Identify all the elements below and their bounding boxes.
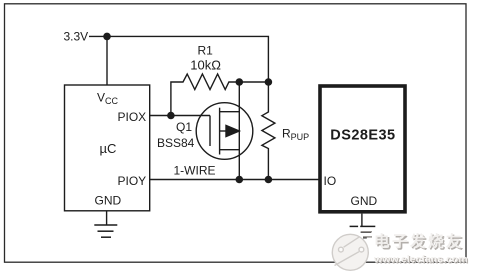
ground (uC) [94, 225, 117, 237]
wire: VCC drop to uC [106, 36, 108, 84]
svg-text:IO: IO [324, 174, 337, 188]
junction dot 3.3V/VCC [103, 33, 111, 41]
svg-text:PIOY: PIOY [118, 174, 147, 188]
junction dot PIOX/R1 [167, 112, 175, 120]
junction dot R1/Rpup [265, 78, 273, 86]
wire: PIOY / 1-WIRE bus [150, 179, 319, 181]
svg-text:GND: GND [351, 194, 378, 208]
svg-text:3.3V: 3.3V [64, 30, 89, 44]
svg-text:µC: µC [100, 141, 117, 156]
microcontroller uC box [65, 85, 150, 211]
svg-text:10kΩ: 10kΩ [190, 58, 221, 73]
IC U1 DS28E35 box [320, 86, 405, 212]
resistor R1 [171, 74, 269, 116]
svg-text:1-WIRE: 1-WIRE [174, 164, 216, 178]
svg-text:DS28E35: DS28E35 [330, 128, 395, 144]
wire: PIOX to gate [150, 115, 210, 117]
svg-text:Q1: Q1 [176, 120, 192, 134]
svg-text:GND: GND [95, 194, 122, 208]
svg-text:www.elecfans.com: www.elecfans.com [373, 254, 468, 266]
svg-text:R1: R1 [198, 44, 214, 58]
svg-text:BSS84: BSS84 [157, 136, 195, 150]
transistor Q1 BSS84 (P-channel MOSFET) [196, 82, 253, 180]
svg-text:PIOX: PIOX [118, 110, 147, 124]
resistor RPUP [262, 82, 275, 180]
watermark logo [332, 232, 372, 270]
ground (DS28E35) [350, 226, 376, 237]
wire: DS28E35 GND to ground [361, 214, 363, 227]
junction dot R1/drain [236, 78, 244, 86]
svg-text:电子发烧友: 电子发烧友 [374, 232, 464, 251]
junction dot Rpup/bus [265, 176, 273, 184]
watermark text [373, 232, 469, 267]
junction dot source/bus [236, 176, 244, 184]
wire: 3.3V rail top [89, 36, 268, 82]
wire: uC GND to ground [106, 211, 108, 225]
